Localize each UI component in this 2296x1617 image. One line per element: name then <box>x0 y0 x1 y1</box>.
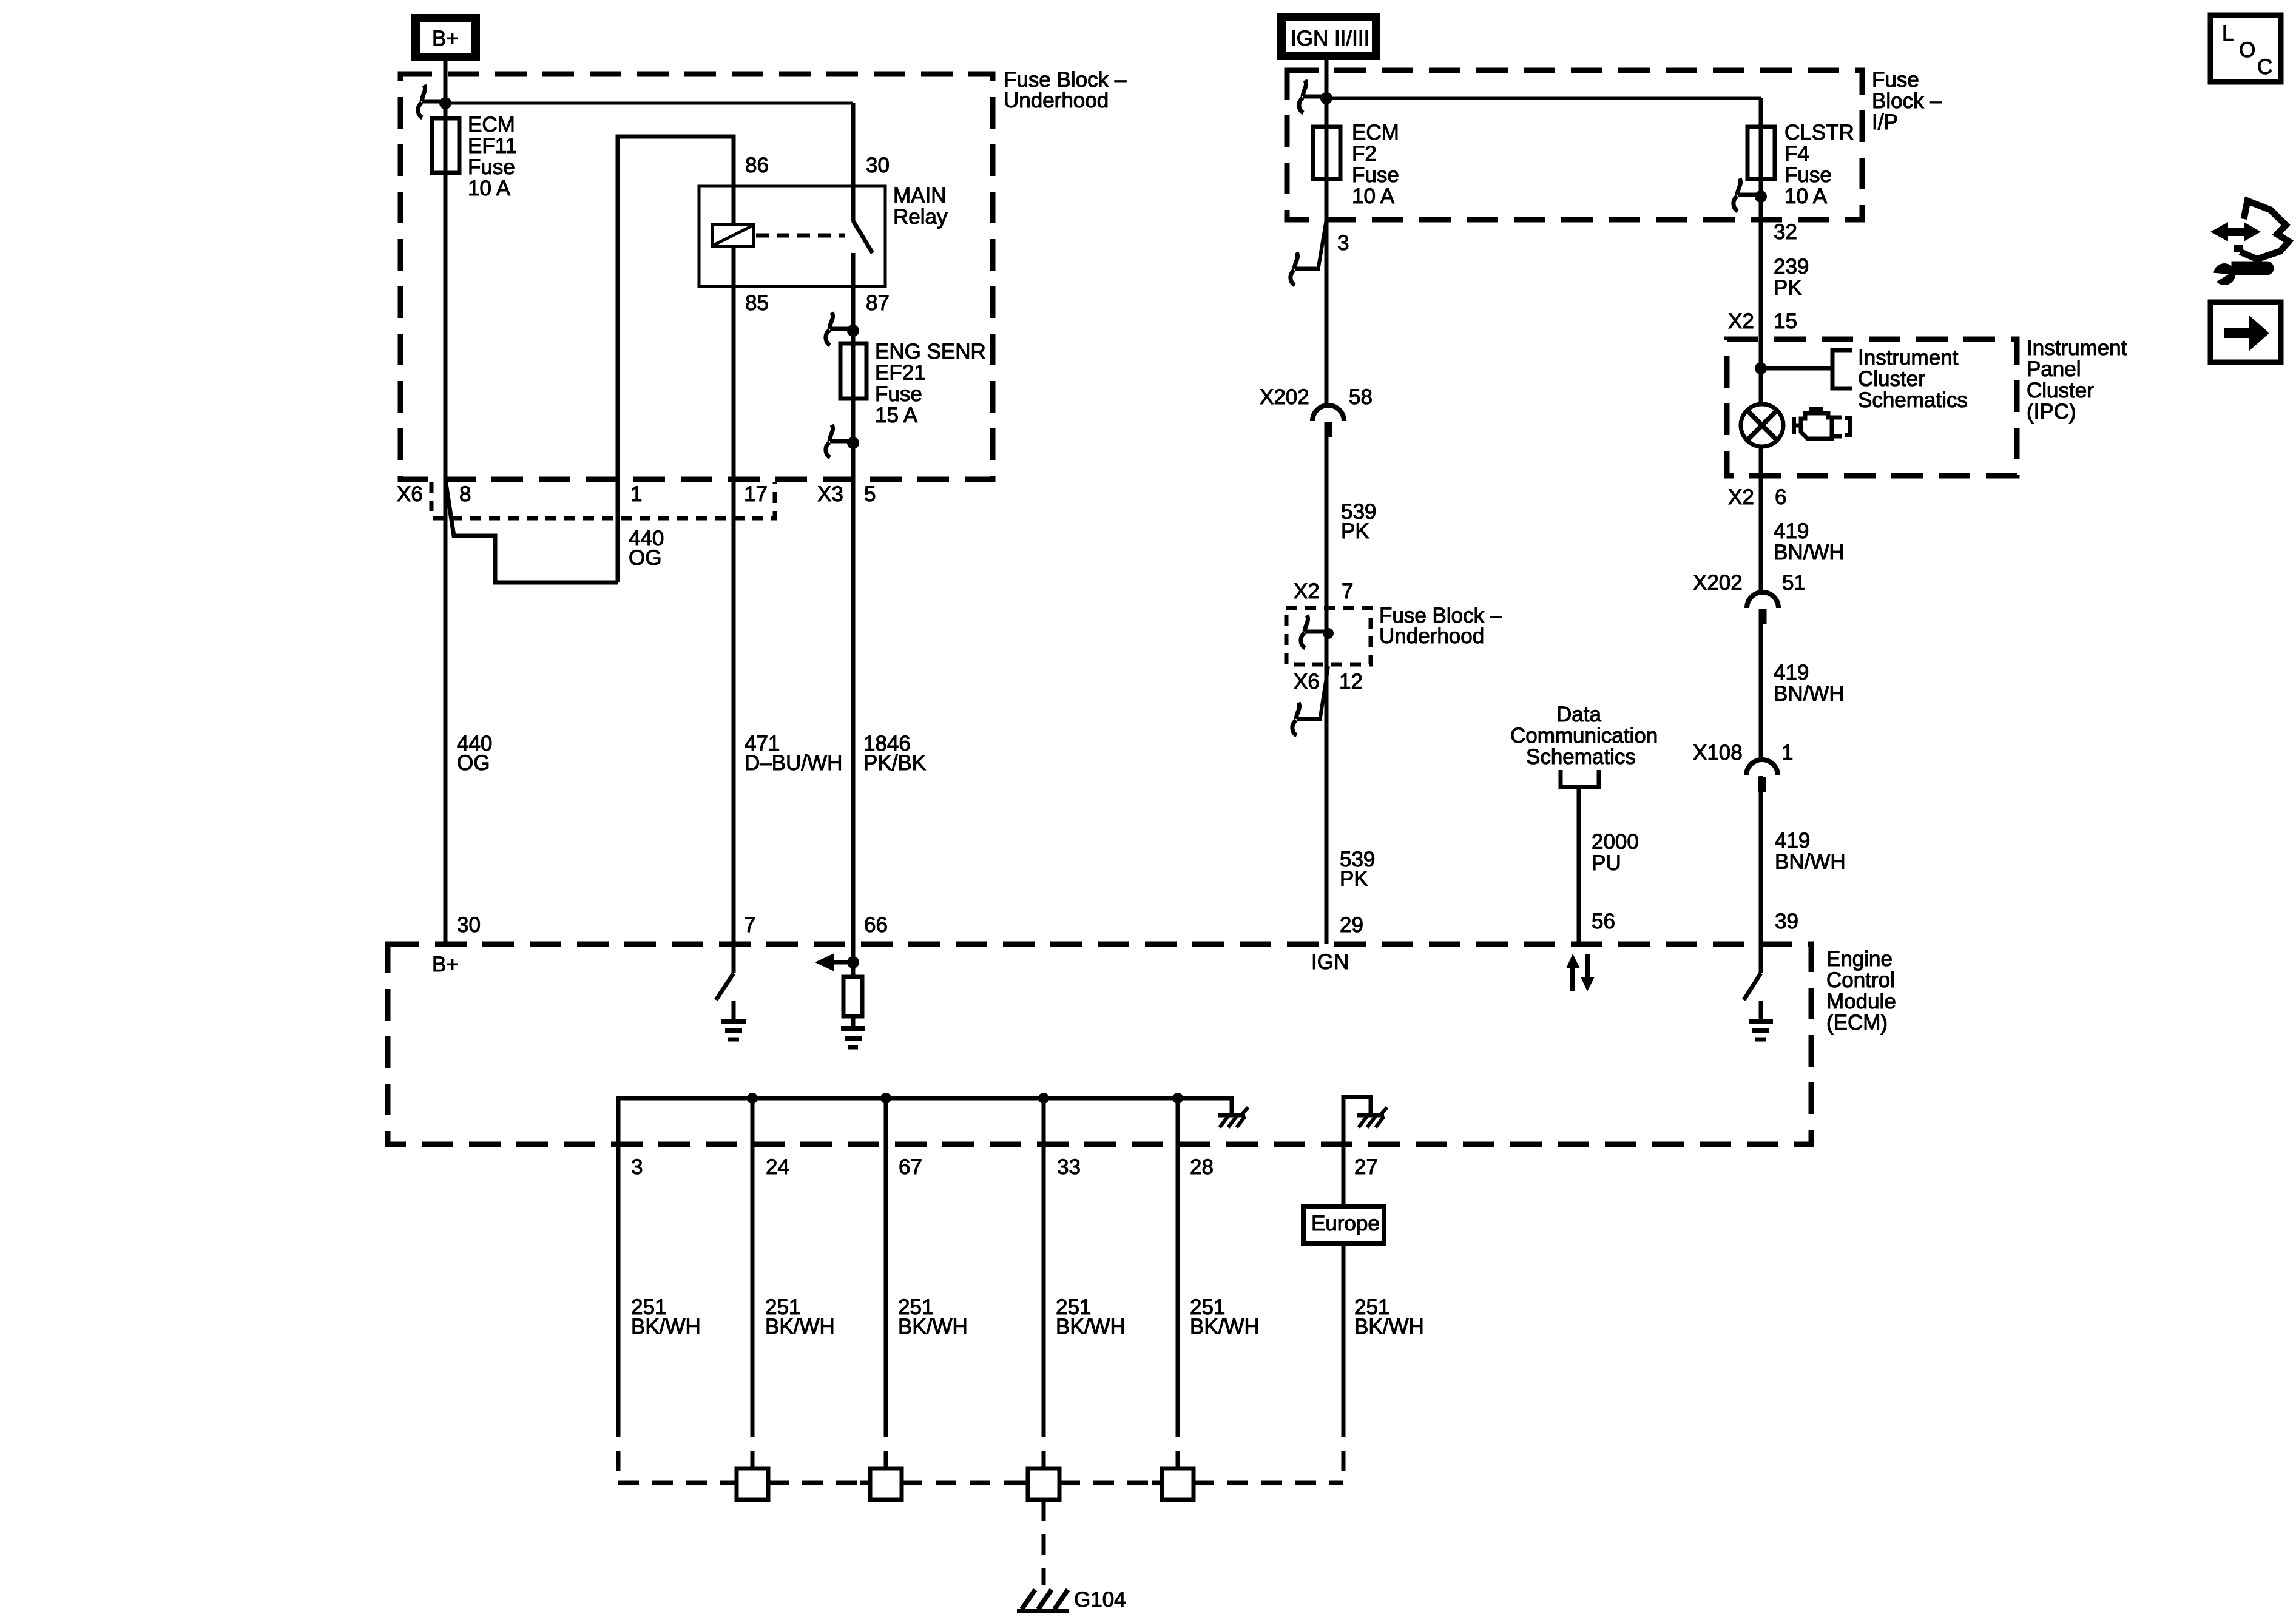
svg-text:CLSTR: CLSTR <box>1784 121 1854 144</box>
svg-text:3: 3 <box>631 1155 643 1179</box>
wire label 251 BK/WH pin 67 <box>898 1295 968 1338</box>
svg-text:1: 1 <box>630 482 642 506</box>
node junction bus 24 <box>747 1093 758 1104</box>
svg-text:Fuse: Fuse <box>1872 68 1919 92</box>
wire label 251 BK/WH pin 28 <box>1190 1295 1260 1338</box>
wire relay 87 down 1846 <box>851 286 856 944</box>
svg-text:IGN: IGN <box>1311 950 1349 974</box>
connector pigtail pin 3 <box>1291 220 1326 285</box>
splice block S67 <box>870 1468 902 1500</box>
clip connector inside pass-through <box>1301 615 1328 648</box>
svg-text:BK/WH: BK/WH <box>1056 1315 1126 1338</box>
wire IGN vertical 539 PK <box>1325 56 1329 944</box>
node junction bus 67 <box>880 1093 891 1104</box>
wire label 539 PK lower <box>1340 848 1375 891</box>
arrow left pin 66 <box>834 960 853 965</box>
svg-text:I/P: I/P <box>1872 110 1898 134</box>
wire label 539 PK upper <box>1341 500 1376 543</box>
svg-text:Engine: Engine <box>1826 947 1893 971</box>
wire label 251 BK/WH pin 3 <box>631 1295 701 1338</box>
svg-text:Schematics: Schematics <box>1526 745 1636 769</box>
wire label 471 D-BU/WH <box>745 732 842 775</box>
svg-text:PK/BK: PK/BK <box>863 751 926 775</box>
fuse block underhood label <box>1004 68 1127 112</box>
svg-text:Panel: Panel <box>2027 357 2081 381</box>
svg-text:29: 29 <box>1340 913 1363 937</box>
fuse block IP dashed box <box>1287 70 1862 220</box>
svg-text:33: 33 <box>1057 1155 1081 1179</box>
ECM internal ground bus <box>618 1098 1232 1144</box>
svg-text:O: O <box>2239 38 2255 62</box>
in-line connector X202 58 <box>1312 405 1344 437</box>
svg-text:10 A: 10 A <box>1352 184 1395 208</box>
svg-text:87: 87 <box>866 291 890 315</box>
svg-text:86: 86 <box>745 154 769 177</box>
svg-text:B+: B+ <box>432 27 459 50</box>
node junction above EF21 <box>847 325 859 337</box>
wire pin 3 <box>616 1144 621 1417</box>
data communication schematics label <box>1510 703 1658 769</box>
clip connector at B+ feed <box>418 85 445 118</box>
svg-text:BN/WH: BN/WH <box>1774 541 1845 564</box>
svg-text:BN/WH: BN/WH <box>1774 682 1845 706</box>
svg-text:PK: PK <box>1340 867 1368 891</box>
power node B+ <box>416 18 476 57</box>
svg-text:Underhood: Underhood <box>1004 89 1109 112</box>
wire CLSTR vertical <box>1759 98 1763 944</box>
svg-text:56: 56 <box>1592 910 1615 933</box>
svg-text:419: 419 <box>1774 519 1809 543</box>
svg-text:Block –: Block – <box>1872 89 1942 113</box>
icon arrow box <box>2210 302 2281 362</box>
svg-text:Control: Control <box>1826 968 1895 992</box>
switch to ground pin 39 <box>1744 944 1761 1000</box>
svg-text:MAIN: MAIN <box>893 184 947 208</box>
wire label 2000 PU <box>1592 830 1639 875</box>
wire top feed to CLSTR F4 <box>1326 97 1761 100</box>
svg-text:X2: X2 <box>1728 309 1754 333</box>
node junction pin 66 <box>851 944 856 977</box>
svg-text:8: 8 <box>459 482 471 506</box>
wire pin 33 <box>1042 1098 1046 1417</box>
relay coil pin 85 wire <box>732 245 736 286</box>
svg-text:(ECM): (ECM) <box>1826 1011 1888 1035</box>
wire relay 85 down 471 <box>732 286 736 944</box>
svg-text:Data: Data <box>1556 703 1601 726</box>
svg-text:EF11: EF11 <box>468 134 517 158</box>
relay actuation dashed link <box>756 234 845 238</box>
svg-text:BK/WH: BK/WH <box>898 1315 968 1338</box>
instrument cluster schematics label <box>1858 346 1968 412</box>
relay MAIN box <box>699 186 885 286</box>
svg-text:Instrument: Instrument <box>2027 336 2127 360</box>
svg-text:Fuse: Fuse <box>468 155 515 179</box>
relay coil <box>712 224 754 246</box>
svg-text:27: 27 <box>1354 1155 1378 1179</box>
wire pin 27 internal with chassis ground <box>1343 1097 1371 1204</box>
engine control module dashed box <box>388 944 1811 1144</box>
node junction IGN feed <box>1320 92 1332 104</box>
svg-text:OG: OG <box>629 546 661 570</box>
clip connector below F4 <box>1734 178 1761 211</box>
svg-text:6: 6 <box>1775 485 1786 509</box>
fuse block underhood pass-through dotted box <box>1286 608 1371 664</box>
svg-text:15 A: 15 A <box>875 403 918 427</box>
svg-text:Fuse: Fuse <box>875 382 922 406</box>
svg-text:X6: X6 <box>1294 670 1320 694</box>
engine icon <box>1794 409 1850 439</box>
svg-text:D–BU/WH: D–BU/WH <box>745 751 842 775</box>
wire label 251 BK/WH pin 24 <box>765 1295 835 1338</box>
wire label 419 BN/WH lower <box>1775 829 1846 874</box>
wire pin1 jog up to relay coil <box>618 137 734 582</box>
node junction IPC branch <box>1755 362 1767 374</box>
svg-text:X2: X2 <box>1294 579 1320 603</box>
svg-text:Fuse: Fuse <box>1784 163 1832 187</box>
svg-text:ECM: ECM <box>1352 121 1399 144</box>
chassis ground pin 27 <box>1357 1107 1387 1127</box>
arrows serial data pin 56 <box>1566 954 1595 991</box>
label fuse EF11 <box>468 113 517 200</box>
clip connector below EF21 <box>826 425 853 457</box>
fuse block underhood dashed box <box>400 74 993 479</box>
wire label 251 BK/WH pin 33 <box>1056 1295 1126 1338</box>
node junction inside pass-through <box>1323 628 1334 639</box>
svg-text:51: 51 <box>1782 571 1806 595</box>
node junction B+ feed <box>439 97 451 109</box>
wire label 251 BK/WH pin 27 <box>1354 1295 1424 1338</box>
svg-text:Communication: Communication <box>1510 724 1658 748</box>
fuse block underhood pass-through label <box>1379 604 1502 648</box>
engine control module label <box>1826 947 1896 1035</box>
svg-text:419: 419 <box>1774 661 1809 684</box>
wire B+ vertical 440 OG <box>444 61 448 944</box>
svg-text:X202: X202 <box>1260 385 1309 409</box>
svg-text:BK/WH: BK/WH <box>1354 1315 1424 1338</box>
svg-text:X3: X3 <box>817 482 843 506</box>
splice block S28 <box>1162 1468 1194 1500</box>
svg-text:IGN II/III: IGN II/III <box>1291 27 1369 50</box>
wire pin 28 <box>1176 1098 1180 1417</box>
wire label 419 BN/WH middle <box>1774 661 1845 706</box>
svg-text:66: 66 <box>864 913 888 937</box>
svg-text:24: 24 <box>766 1155 789 1179</box>
svg-text:1: 1 <box>1781 741 1793 765</box>
connector pigtail X6 12 <box>1292 666 1328 735</box>
svg-text:F4: F4 <box>1784 142 1809 166</box>
ground pin 66 <box>851 1016 856 1026</box>
splice bus ticks <box>727 1481 1203 1485</box>
svg-text:15: 15 <box>1774 309 1797 333</box>
in-line connector X202 51 <box>1747 592 1778 624</box>
wire pin 24 <box>751 1098 755 1417</box>
svg-text:BK/WH: BK/WH <box>765 1315 835 1338</box>
svg-text:Instrument: Instrument <box>1858 346 1959 370</box>
wire label 440 OG main <box>457 732 492 775</box>
svg-text:10 A: 10 A <box>1784 184 1828 208</box>
wire label 419 BN/WH upper <box>1774 519 1845 564</box>
wire pin 67 <box>884 1098 888 1417</box>
icon LOC box <box>2210 15 2281 82</box>
relay coil pin 86 wire <box>732 186 736 226</box>
svg-text:F2: F2 <box>1352 142 1377 166</box>
splice block S33 <box>1028 1468 1059 1500</box>
clip connector at IGN feed <box>1299 80 1326 113</box>
resistor pin 66 <box>843 977 862 1016</box>
svg-text:EF21: EF21 <box>875 361 926 385</box>
svg-text:C: C <box>2257 55 2272 79</box>
clip connector above EF21 <box>826 312 853 345</box>
wire label 440 OG jog <box>629 527 664 570</box>
svg-text:G104: G104 <box>1074 1588 1126 1612</box>
bracket instrument cluster schematics <box>1832 350 1852 388</box>
svg-text:PU: PU <box>1592 851 1621 875</box>
relay pin 87 wire <box>851 253 856 286</box>
svg-text:ECM: ECM <box>468 113 515 137</box>
in-line connector X108 1 <box>1746 760 1778 792</box>
svg-text:2000: 2000 <box>1592 830 1639 854</box>
dashed wire tails to ground bus <box>618 1417 1343 1483</box>
svg-text:3: 3 <box>1337 231 1349 255</box>
svg-text:Schematics: Schematics <box>1858 388 1968 412</box>
svg-text:28: 28 <box>1190 1155 1214 1179</box>
icon service double arrow <box>2210 201 2289 259</box>
svg-text:BN/WH: BN/WH <box>1775 850 1846 874</box>
svg-text:X108: X108 <box>1693 741 1743 765</box>
ground G104 <box>1017 1590 1069 1611</box>
svg-text:32: 32 <box>1774 220 1797 244</box>
label fuse EF21 <box>875 340 986 427</box>
svg-text:Module: Module <box>1826 990 1896 1013</box>
fuse F4 <box>1747 127 1775 179</box>
svg-text:7: 7 <box>1342 579 1353 603</box>
relay MAIN label <box>893 184 948 229</box>
svg-text:17: 17 <box>744 482 768 506</box>
svg-text:Cluster: Cluster <box>1858 367 1925 391</box>
svg-text:30: 30 <box>457 913 481 937</box>
wire 2000 PU <box>1577 787 1581 944</box>
wire label 1846 PK/BK <box>863 732 926 775</box>
dashed ground bus <box>618 1481 1343 1485</box>
wire pin 27 below Europe <box>1342 1243 1346 1417</box>
node junction below F4 <box>1755 191 1767 203</box>
ground pin 39 <box>1749 1001 1773 1039</box>
svg-text:Fuse: Fuse <box>1352 163 1399 187</box>
svg-text:PK: PK <box>1774 276 1802 300</box>
svg-text:5: 5 <box>864 482 876 506</box>
fuse EF11 <box>432 118 459 173</box>
svg-text:419: 419 <box>1775 829 1810 852</box>
relay pin 30 wire <box>851 103 856 221</box>
svg-text:PK: PK <box>1341 519 1369 543</box>
component box Europe <box>1303 1206 1384 1243</box>
wire IPC branch <box>1761 366 1832 371</box>
svg-text:39: 39 <box>1775 910 1798 933</box>
svg-text:L: L <box>2222 22 2234 46</box>
svg-text:12: 12 <box>1339 670 1363 694</box>
svg-text:Europe: Europe <box>1311 1212 1380 1235</box>
power node IGN II/III <box>1281 17 1376 56</box>
svg-text:58: 58 <box>1349 385 1373 409</box>
svg-text:67: 67 <box>899 1155 922 1179</box>
switch to ground pin 7 <box>716 944 734 1000</box>
bracket data communication <box>1561 770 1599 787</box>
wire jog X6-8 to pin1 440 OG <box>445 479 618 582</box>
ground pin 7 <box>721 1001 746 1039</box>
svg-text:7: 7 <box>744 913 755 937</box>
label fuse F4 <box>1784 121 1854 208</box>
svg-text:30: 30 <box>866 154 890 177</box>
svg-text:X202: X202 <box>1693 571 1743 595</box>
svg-text:Cluster: Cluster <box>2027 379 2094 402</box>
svg-text:ENG SENR: ENG SENR <box>875 340 986 363</box>
connector row dotted box <box>431 482 775 518</box>
fuse F2 <box>1313 127 1340 179</box>
splice block S24 <box>737 1468 768 1500</box>
node junction bus 28 <box>1172 1093 1183 1104</box>
svg-text:Underhood: Underhood <box>1379 624 1484 648</box>
svg-text:Relay: Relay <box>893 205 948 229</box>
svg-text:B+: B+ <box>432 953 459 976</box>
svg-text:(IPC): (IPC) <box>2027 400 2076 424</box>
wire label 239 PK <box>1774 255 1809 300</box>
svg-text:239: 239 <box>1774 255 1809 279</box>
svg-text:BK/WH: BK/WH <box>1190 1315 1260 1338</box>
svg-text:X2: X2 <box>1728 485 1754 509</box>
fuse EF21 <box>840 343 866 399</box>
svg-text:OG: OG <box>457 751 490 775</box>
chassis ground bus end <box>1218 1107 1248 1127</box>
instrument panel cluster label <box>2027 336 2127 424</box>
node junction below EF21 <box>847 437 859 449</box>
label fuse F2 <box>1352 121 1399 208</box>
wire top feed to relay 30 <box>445 102 853 105</box>
svg-text:10 A: 10 A <box>468 177 511 200</box>
svg-text:X6: X6 <box>397 482 423 506</box>
icon service wrench <box>2209 263 2272 285</box>
svg-text:85: 85 <box>745 291 769 315</box>
svg-text:BK/WH: BK/WH <box>631 1315 701 1338</box>
dashed wire to G104 <box>1042 1500 1046 1585</box>
node junction bus 33 <box>1038 1093 1049 1104</box>
lamp MIL indicator <box>1741 404 1783 447</box>
fuse block IP label <box>1872 68 1942 134</box>
relay switch blade <box>853 221 873 253</box>
instrument panel cluster dashed box <box>1727 339 2017 476</box>
